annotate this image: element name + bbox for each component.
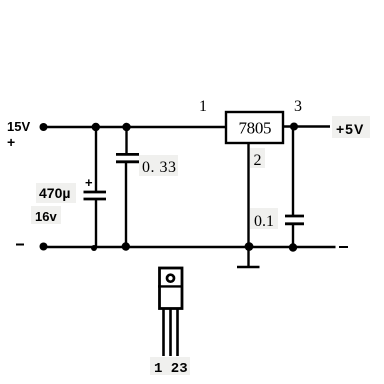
svg-text:0. 33: 0. 33 <box>142 159 176 176</box>
svg-text:+5V: +5V <box>336 121 364 137</box>
TO-220 leg pin 2 <box>169 309 172 356</box>
label - (left negative terminal) <box>16 244 24 246</box>
node C1 bottom junction <box>91 245 97 251</box>
svg-text:1 23: 1 23 <box>154 361 188 377</box>
label - (right negative terminal) <box>339 246 348 248</box>
TO-220 leg pin 1 <box>162 309 165 356</box>
svg-text:7805: 7805 <box>239 119 272 138</box>
label highlight boxes (artifact shading) <box>31 116 370 375</box>
ground <box>237 266 260 269</box>
op-amp U1 7805 regulator box <box>226 112 283 143</box>
svg-text:16v: 16v <box>35 209 57 224</box>
capacitor C2 0.33 <box>116 127 139 247</box>
svg-text:+: + <box>85 175 93 190</box>
node bottom-left terminal <box>40 243 48 251</box>
TO-220 mounting hole <box>167 275 174 282</box>
svg-text:3: 3 <box>294 98 302 115</box>
node A junction C1 top <box>92 123 100 131</box>
wire pin 2 lead <box>247 143 249 266</box>
transistor package TO-220 outline <box>160 268 183 309</box>
svg-text:2: 2 <box>254 152 262 169</box>
svg-text:0.1: 0.1 <box>254 213 274 230</box>
capacitor C1 470µ electrolytic <box>84 127 107 247</box>
node pin2 ground junction <box>245 242 254 251</box>
node C2 bottom junction <box>122 242 130 250</box>
wire bottom rail <box>43 246 336 248</box>
TO-220 divider line <box>158 285 183 287</box>
svg-text:+: + <box>7 134 15 150</box>
node C3 bottom junction <box>289 243 297 251</box>
svg-text:1: 1 <box>199 98 207 115</box>
TO-220 leg pin 3 <box>176 309 179 356</box>
svg-text:470µ: 470µ <box>39 185 70 201</box>
node B junction C2 top <box>122 123 130 131</box>
wire top rail from input terminal to regulator <box>43 126 226 128</box>
capacitor C3 0.1 <box>285 127 304 248</box>
svg-text:15V: 15V <box>7 119 30 134</box>
node C output junction <box>290 123 298 131</box>
wire output from regulator <box>283 125 330 127</box>
node input terminal + <box>40 123 48 131</box>
